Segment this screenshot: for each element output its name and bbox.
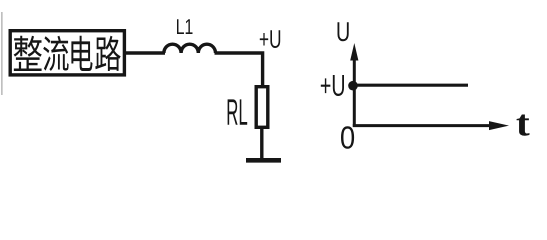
node +U label (circuit) (260, 30, 280, 48)
graph level dot (348, 81, 358, 91)
graph origin 0 label (341, 126, 354, 148)
ground (246, 158, 281, 163)
wire: resistor to ground (260, 127, 263, 159)
box label char 电 (71, 36, 92, 71)
stray scan edge line (1, 12, 2, 95)
inductor L1 (164, 44, 216, 53)
wire: box output to inductor (126, 51, 165, 54)
graph t axis arrowhead (489, 121, 509, 130)
box label char 整 (14, 36, 42, 71)
graph U axis label (338, 22, 349, 41)
box label char 流 (43, 36, 68, 71)
resistor RL body (256, 87, 268, 128)
box label char 路 (95, 36, 120, 71)
rectifier block box 整流电路 (10, 31, 124, 75)
graph vertical axis arrowhead (350, 43, 358, 61)
graph t axis label (517, 115, 530, 136)
wire: inductor to +U node, down to resistor (215, 53, 263, 86)
graph vertical axis line (353, 58, 356, 127)
graph +U level label (321, 75, 344, 96)
graph +U level line (354, 84, 468, 87)
inductor L1 label (177, 19, 192, 34)
graph t axis line (353, 124, 492, 127)
resistor RL label (228, 99, 248, 124)
